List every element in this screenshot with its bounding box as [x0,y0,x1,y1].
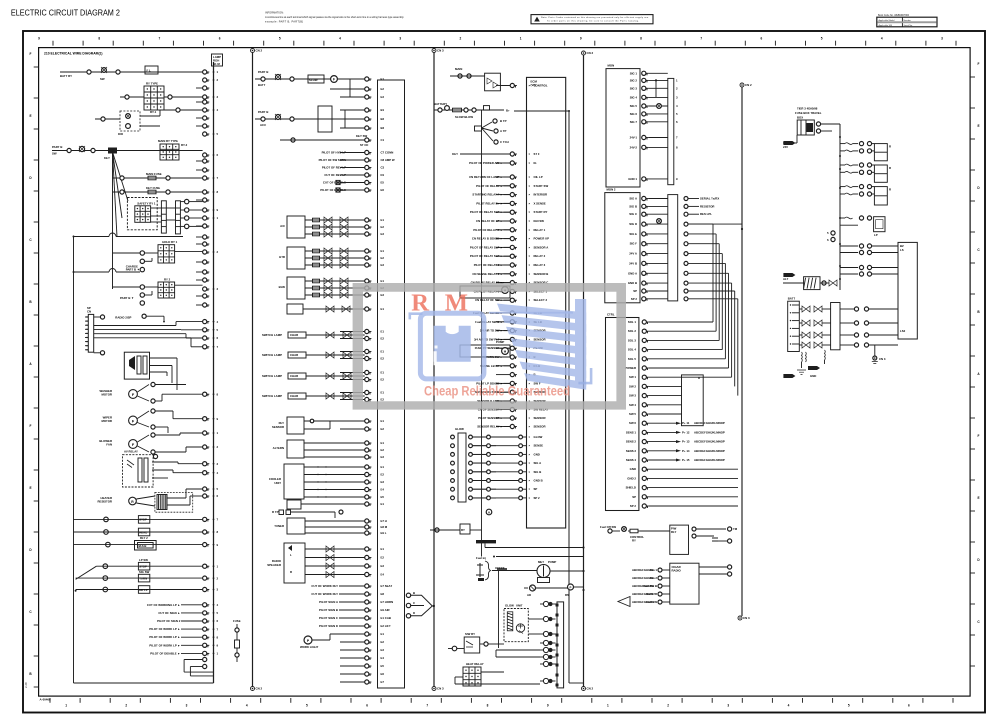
ECM controller box [527,77,566,528]
svg-text:CN 3: CN 3 [879,357,886,361]
battery to controller wires [840,307,898,347]
svg-text:9: 9 [547,704,549,708]
panel D1 pin row 7 [630,135,668,139]
panel D1 pin row 9 [628,177,668,181]
svg-text:8: 8 [98,37,100,41]
svg-text:GND: GND [630,467,636,471]
pin CN1-3 on column A bus [203,95,219,99]
svg-text:SLOW BLOW: SLOW BLOW [455,115,473,119]
watermark corner bracket top-left [409,312,423,319]
svg-text:E5: E5 [381,181,385,185]
svg-text:RY-1: RY-1 [150,110,157,114]
pin row B y265 [340,263,384,267]
head lamp feed row A y532 [74,528,203,536]
pin CN1-11 on column A bus [203,250,219,254]
svg-text:24V-1: 24V-1 [630,136,638,140]
ECM pin row y366 [480,364,540,368]
pin CN1-13 on column A bus [203,320,219,324]
ECM pin row y331 [480,329,546,333]
svg-text:ABCDEFGHIJKLMNOP: ABCDEFGHIJKLMNOP [694,421,725,425]
pin row B y421 [340,419,384,423]
K3 output circles [180,199,202,228]
pin CN1-5 on column A bus [203,132,219,136]
svg-text:E9 L: E9 L [381,531,387,535]
svg-text:R: R [889,166,891,170]
panel D2 pin row 1 [629,204,668,208]
svg-text:BATT RY: BATT RY [60,74,72,78]
panel D1 pin row 5 [630,112,668,116]
svg-text:SIG 1: SIG 1 [630,71,638,75]
block small AUX [287,500,365,509]
ECM pin row y283 [471,281,549,285]
svg-text:E1 CAB: E1 CAB [381,616,391,620]
svg-text:KEY FUSE: KEY FUSE [146,186,160,190]
pin row B y429 [340,427,384,431]
svg-text:5: 5 [306,704,308,708]
controller D3 pin row 17 [627,476,738,480]
pin row B y152 [340,150,393,154]
pin CN1-27 on column A bus [203,543,219,547]
svg-text:C: C [413,601,415,605]
svg-text:LP SW: LP SW [139,558,148,562]
controller D3 pin row 0 [628,320,713,324]
svg-text:F: F [30,52,32,56]
pin row B y666 [340,664,384,668]
svg-text:E: E [29,486,31,490]
warning box [531,15,653,24]
svg-text:E1: E1 [381,218,385,222]
svg-text:example: PART B, PART[B]: example: PART B, PART[B] [265,20,303,24]
svg-text:TUNER: TUNER [274,524,284,528]
watermark underline bar [489,312,573,314]
svg-text:E7 H: E7 H [381,519,387,523]
pin row B y618 [340,616,391,620]
labelled wire row A-0 [147,603,203,607]
svg-text:SW 4: SW 4 [629,403,636,407]
svg-text:P+ 11: P+ 11 [682,421,690,425]
controller D3 pin row 10 [629,412,681,416]
svg-text:CHAR: CHAR [290,374,298,378]
svg-text:B3: B3 [381,126,385,130]
svg-text:SWITCH LAMP: SWITCH LAMP [262,394,282,398]
svg-text:E7: E7 [381,680,385,684]
ECM pin row y410 [478,407,549,411]
svg-text:5: 5 [279,37,281,41]
pin row B y650 [340,648,384,652]
ECM pin row y313 [473,311,542,315]
svg-text:P+ 13: P+ 13 [682,440,690,444]
svg-text:RY 2: RY 2 [164,278,171,282]
svg-text:HTR: HTR [279,255,285,259]
svg-text:HOLD RY 1: HOLD RY 1 [162,240,177,244]
svg-text:RY-2: RY-2 [181,143,188,147]
svg-text:PILOT OF DISABLE ►: PILOT OF DISABLE ► [150,651,180,655]
svg-text:PILOT SIGN B: PILOT SIGN B [319,608,338,612]
ECM pin row y163 [469,161,537,165]
svg-text:SAFETY RY 1: SAFETY RY 1 [137,201,156,205]
watermark corner bracket bottom-right [578,368,592,384]
svg-text:E2: E2 [381,256,385,260]
feed arrow label E left top [783,141,795,149]
sensor row with shield 0 [262,332,365,338]
connector strip CN-B body [378,80,405,688]
svg-text:SIG 4: SIG 4 [630,95,638,99]
svg-text:STOP: STOP [139,518,147,522]
svg-text:B2: B2 [381,117,385,121]
pin CN1-18 on column A bus [203,417,219,421]
svg-text:C3: C3 [381,166,385,170]
pin row B y443 [340,441,384,445]
bottom row B 3 [319,608,365,612]
svg-text:RELAY 1: RELAY 1 [534,228,546,232]
svg-text:CN 2: CN 2 [745,83,752,87]
svg-text:Number: Number [904,19,912,22]
ECM pin row y195 [472,193,547,197]
pin CN1-12 on column A bus [203,287,219,291]
svg-text:SENSOR: SENSOR [272,425,284,429]
bottom row B 0 [311,584,364,588]
svg-text:L: L [290,553,292,557]
controller D3 pin row 18 [626,486,738,490]
controller D3 pin row 4 [628,357,726,361]
AV relay dashed box [123,450,203,488]
pin row B y220 [340,218,384,222]
svg-text:CUT OF WORK RLY: CUT OF WORK RLY [311,584,338,588]
svg-text:SP: SP [87,306,91,310]
svg-text:SIG 7: SIG 7 [630,120,638,124]
junction dots D1 [655,79,657,97]
zone ticks top [38,37,956,46]
wire rows from strip into ECM [472,435,543,500]
svg-text:SW 3: SW 3 [629,394,636,398]
svg-text:KEY SW: KEY SW [356,134,367,138]
pin row B y168 [340,165,385,169]
svg-text:RESISTOR: RESISTOR [98,500,113,504]
control block A/C [280,216,305,238]
sensor row with shield 2 [262,373,365,379]
svg-text:E6: E6 [381,188,385,192]
zone ticks right [970,62,980,666]
block row A/C-2 [305,231,365,237]
svg-text:24V: 24V [783,145,788,149]
ground node CN3 E [872,345,886,364]
pin row B y602 [340,600,393,604]
svg-text:RY TYPE: RY TYPE [146,82,158,86]
relay block R2 grid [158,139,188,160]
speaker box A [124,352,177,390]
pin row B y634 [340,632,384,636]
H sensor circle [486,509,492,515]
ECM pin row y322 [475,320,542,324]
svg-text:SENSE: SENSE [534,444,544,448]
pin row B y128 [340,126,385,130]
svg-text:BATT: BATT [788,297,796,301]
svg-text:S/W RY: S/W RY [465,632,475,636]
svg-text:7: 7 [700,37,702,41]
svg-text:4: 4 [788,704,790,708]
svg-text:SIG 5: SIG 5 [630,104,638,108]
controller D3 pin row 1 [628,329,716,333]
svg-text:SWITCH LAMP: SWITCH LAMP [262,374,282,378]
svg-text:ABCDEFGHIJKL: ABCDEFGHIJKL [632,576,655,580]
svg-text:1: 1 [607,704,609,708]
svg-text:ST OF: ST OF [360,143,369,147]
ECM power driver box [450,67,510,91]
panel D1 pin row 4 [630,104,668,108]
pin row B y474 [340,472,384,476]
svg-text:SHIELD: SHIELD [626,486,636,490]
controller D3 pin row 6 [629,375,732,379]
fuse branch pair y187 [840,185,874,197]
svg-text:SP 2: SP 2 [631,297,638,301]
svg-text:R: R [698,376,700,380]
panel D2 pin row 6 [629,252,668,256]
metering motor M [537,560,585,583]
pin CN1-21 on column A bus [203,462,219,466]
svg-text:SELECT 2: SELECT 2 [534,298,548,302]
feed wires bottom center [476,540,585,558]
svg-text:R TP: R TP [272,510,279,514]
svg-text:PILOT OF RELAY ►: PILOT OF RELAY ► [476,184,503,188]
svg-text:E1: E1 [381,502,385,506]
svg-text:TURN: TURN [139,576,147,580]
svg-text:E5: E5 [381,495,385,499]
svg-text:CHAR: CHAR [290,333,298,337]
fuse box block E1 [797,116,840,136]
svg-text:SW 2: SW 2 [629,384,636,388]
lamp circle D2 [657,219,662,224]
svg-text:HEAT RELAY: HEAT RELAY [466,662,484,666]
svg-text:ABCDEFGHIJKL: ABCDEFGHIJKL [632,568,655,572]
block row A/C-0 [305,217,365,223]
svg-text:Fuel RELAY SW B ►: Fuel RELAY SW B ► [475,320,503,324]
branch wires B2 [318,106,365,132]
svg-text:P+ 15: P+ 15 [682,458,690,462]
aux component stack x237 [233,619,241,662]
svg-text:7: 7 [159,37,161,41]
pin CN1-19 on column A bus [203,431,219,435]
svg-text:E1: E1 [381,279,385,283]
watermark frame [353,283,626,410]
svg-text:C TCH: C TCH [500,140,509,144]
pin row B y674 [340,672,384,676]
svg-text:E2: E2 [381,473,385,477]
wire row y110 to bus [160,108,203,112]
svg-text:PILOT OF POWER A/D ►: PILOT OF POWER A/D ► [469,161,503,165]
diagonal fan from key junction [111,149,128,237]
svg-text:RADIO: RADIO [672,569,682,573]
svg-text:FUEL PP SENSOR ►: FUEL PP SENSOR ► [475,346,503,350]
pin row B y372 [340,370,384,374]
pin row B y658 [340,656,384,660]
svg-text:PUMP: PUMP [548,560,556,564]
labelled row B mid 5 [320,188,364,192]
svg-text:E2: E2 [381,427,385,431]
pin row B y358 [340,356,384,360]
svg-text:CHAR: CHAR [290,394,298,398]
pin CN1-16 on column A bus [203,345,219,349]
svg-text:SOL 4: SOL 4 [628,348,637,352]
feed wire A y272 [73,269,141,274]
arrow chevron D left [618,597,630,607]
switch SW1 row [60,67,203,81]
svg-text:2: 2 [125,704,127,708]
controller D3 pin row 13 [626,440,725,444]
svg-text:SIG C: SIG C [629,212,637,216]
svg-text:E1: E1 [381,77,385,81]
ECM pin row y203 [476,201,546,205]
block SPEAKER AMP [267,543,364,583]
block row BLW-1 [305,285,365,291]
pin CN1-36 on column A bus [203,643,219,647]
controller box D5 [632,563,732,604]
svg-text:OIL LP: OIL LP [534,175,543,179]
pin row B y558 [340,555,384,559]
svg-text:A TP: A TP [500,129,506,133]
svg-text:RLY 2: RLY 2 [140,536,148,540]
svg-text:PUMP: PUMP [496,340,504,344]
pin row B y626 [340,624,391,628]
svg-text:210 ELECTRICAL WIRE DIAGRAM(1): 210 ELECTRICAL WIRE DIAGRAM(1) [44,52,103,56]
svg-text:MOTOR: MOTOR [101,393,112,397]
branch wires B1 [330,79,365,97]
panel D1 pin row 1 [630,78,668,82]
connector sym pair E y220 [840,216,885,237]
pressure circles row [524,584,585,597]
wire row y97 [120,95,144,99]
K3 interconnect wires [151,208,176,222]
svg-text:E: E [29,114,31,118]
svg-text:D1: D1 [381,173,385,177]
controller D3 pin row 20 [630,504,738,508]
svg-text:SOL 2: SOL 2 [628,329,637,333]
pin CN1-20 on column A bus [203,445,219,449]
panel D1 pin row 6 [630,120,668,124]
starter switch cluster [52,145,203,160]
fuse box section label [795,107,822,116]
bulb relay row A [74,536,203,550]
ECM pin row y265 [474,263,546,267]
svg-text:CN 2: CN 2 [587,687,594,691]
feed wire A y235 [73,233,184,237]
relay box D4 [670,525,738,554]
panel D2 pin row 3 [629,222,668,226]
pin row B y110 [340,108,385,112]
sensor row with shield 1 [262,352,365,358]
rail CN2 left [251,49,263,691]
svg-text:E3: E3 [381,263,385,267]
svg-text:D: D [413,611,415,615]
fuse row y192 [113,186,203,194]
svg-text:RELAY 3: RELAY 3 [534,263,546,267]
bottom row B 5 [319,624,365,628]
ECM lower-left connector strip [451,427,496,502]
svg-text:SIG 6: SIG 6 [630,112,638,116]
panel D1 pin row 3 [630,95,668,99]
svg-text:AD: AD [527,593,531,597]
svg-text:8: 8 [487,704,489,708]
svg-text:TM: TM [733,527,738,531]
svg-text:E1: E1 [381,307,385,311]
strip D1 [668,78,678,184]
svg-text:SIG SW: SIG SW [139,570,150,574]
svg-text:E1: E1 [381,371,385,375]
svg-text:CN 2: CN 2 [587,51,594,55]
ECM pin row y230 [473,228,545,232]
svg-text:START RY: START RY [534,210,548,214]
svg-text:E2: E2 [381,225,385,229]
svg-text:CONTROL: CONTROL [534,84,548,88]
block ALTERNATOR [273,440,365,458]
ECM pin row y291 [474,289,548,293]
ECM pin row y401 [477,399,545,403]
svg-text:ABCDEFGHIJKLMNOP: ABCDEFGHIJKLMNOP [694,430,725,434]
svg-text:PILOT OF WORK LP ►: PILOT OF WORK LP ► [149,643,180,647]
panel D2 pin row 10 [633,289,668,293]
pin row B y467 [340,465,384,469]
svg-text:R: R [889,145,891,149]
relay box K3 with coil [127,198,157,230]
beacon row A [76,586,203,594]
svg-text:SW: SW [100,77,105,81]
head lamp row A [75,570,203,592]
pin row B y400 [340,397,384,401]
svg-text:SENSOR A: SENSOR A [534,245,549,249]
panel D2 pin row 4 [629,232,667,236]
svg-text:FAN: FAN [106,443,112,447]
svg-text:POWER: POWER [625,366,636,370]
svg-text:IGN SW: IGN SW [534,219,545,223]
svg-text:E4: E4 [381,488,385,492]
blower motor F3 [99,433,202,454]
svg-text:SENS 2: SENS 2 [626,440,637,444]
pin row B y642 [340,640,384,644]
svg-text:B: B [413,591,415,595]
svg-text:LS: LS [900,248,904,252]
svg-text:FUSE: FUSE [233,619,241,623]
ECM pin row y392 [475,390,546,394]
panel D2 pin row 8 [628,271,668,275]
controller D3 pin row 12 [626,430,725,434]
bottom jog wire column A [184,657,213,676]
svg-text:CN: CN [87,310,91,314]
svg-text:Note: Parts Codes contained on: Note: Parts Codes contained on this draw… [541,16,649,19]
relay box K4 [113,240,203,272]
svg-text:PILOT OF RELAY SLP ►: PILOT OF RELAY SLP ► [470,210,503,214]
svg-text:E3: E3 [381,480,385,484]
svg-text:CUT OF WORK RLY: CUT OF WORK RLY [311,592,338,596]
pin CN1-29 on column A bus [203,576,219,580]
svg-text:C7 CONN: C7 CONN [381,151,394,155]
controller D3 pin row 15 [626,458,725,462]
relay box K5 [113,278,203,306]
zone ticks bottom [50,698,953,708]
svg-text:PART B ▼: PART B ▼ [120,296,134,300]
wire from D2 to rail [688,224,743,230]
svg-text:SIG E: SIG E [629,232,637,236]
feed wire E top [783,135,797,143]
svg-text:KEY: KEY [104,156,110,160]
svg-text:SWITCH LAMP: SWITCH LAMP [262,353,282,357]
labelled wire row A-3 [149,627,202,631]
svg-text:Serial No.: Serial No. [904,24,914,27]
svg-text:E1: E1 [381,441,385,445]
ECM pin row y339 [474,337,546,341]
svg-text:E3: E3 [381,293,385,297]
svg-text:B1 M: B1 M [213,62,220,66]
panel D1 pin row 0 [630,71,668,75]
preheat relay grid block [455,662,540,686]
